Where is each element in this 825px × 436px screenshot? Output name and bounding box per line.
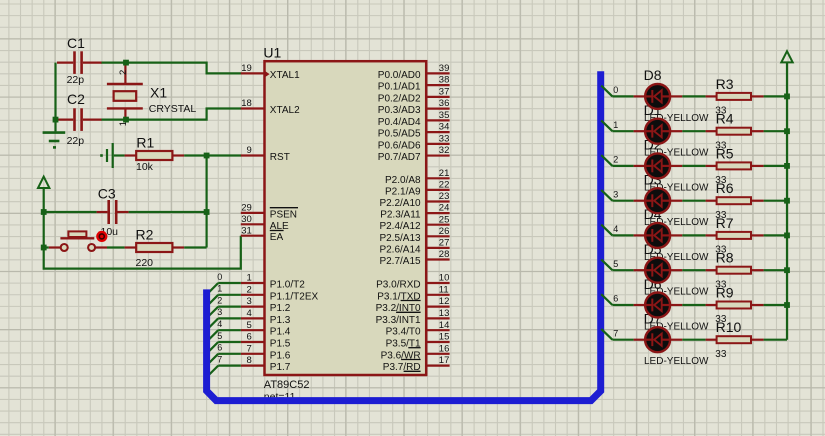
pin P0.5/AD5 (34) <box>378 122 450 140</box>
svg-text:C2: C2 <box>67 91 85 107</box>
label R1 <box>136 135 154 151</box>
svg-text:R9: R9 <box>716 284 734 300</box>
svg-text:17: 17 <box>439 355 450 366</box>
label R4 <box>716 111 734 127</box>
LED D6 <box>634 293 683 318</box>
svg-text:9: 9 <box>247 145 252 156</box>
label R8 <box>716 250 734 266</box>
label R2 <box>136 226 154 242</box>
svg-text:22p: 22p <box>67 74 85 86</box>
capacitor C1 <box>57 51 102 74</box>
label D1 <box>644 102 662 118</box>
value LED-YELLOW (D2) <box>644 182 709 193</box>
svg-text:13: 13 <box>439 308 450 319</box>
svg-text:PSEN: PSEN <box>270 209 297 220</box>
node bus entry label 6 <box>217 343 222 353</box>
svg-text:34: 34 <box>439 122 450 133</box>
svg-text:XTAL1: XTAL1 <box>270 70 300 81</box>
svg-text:6: 6 <box>217 343 222 353</box>
label R6 <box>716 180 734 196</box>
node bus entry label 5 <box>217 331 222 341</box>
value LED-YELLOW (D4) <box>644 252 709 263</box>
value 33 (R6) <box>715 210 727 221</box>
crystal X1 <box>107 65 143 119</box>
pin PSEN (29) <box>241 203 298 221</box>
label D6 <box>644 276 662 292</box>
node bus exit label 1 <box>613 120 618 130</box>
resistor R4 <box>706 128 764 135</box>
wire P1.0 to bus <box>207 283 240 294</box>
wire C1-C2 left vertical <box>54 63 56 120</box>
svg-text:2: 2 <box>217 295 222 305</box>
svg-text:P2.3/A11: P2.3/A11 <box>380 210 421 221</box>
svg-text:P0.3/AD3: P0.3/AD3 <box>378 105 421 116</box>
svg-text:4: 4 <box>613 224 618 234</box>
node junction X1 pin1 <box>123 117 129 123</box>
svg-text:P2.7/A15: P2.7/A15 <box>379 256 421 267</box>
svg-text:0: 0 <box>217 272 222 282</box>
svg-text:29: 29 <box>241 203 252 214</box>
svg-text:2: 2 <box>118 70 129 75</box>
svg-text:22: 22 <box>439 180 450 191</box>
resistor R8 <box>706 267 764 274</box>
node bus exit label 0 <box>613 85 618 95</box>
label D8 <box>644 67 662 83</box>
svg-text:11: 11 <box>439 284 449 295</box>
svg-text:18: 18 <box>241 98 252 109</box>
svg-text:5: 5 <box>217 331 222 341</box>
LED D3 <box>634 188 683 213</box>
wire R9 to rail <box>764 304 787 306</box>
node bus entry label 3 <box>217 307 222 317</box>
svg-text:26: 26 <box>439 226 450 237</box>
svg-text:1: 1 <box>247 273 252 284</box>
pin P2.4/A12 (25) <box>379 214 449 232</box>
svg-text:33: 33 <box>439 133 450 144</box>
wire LED to R5 <box>682 165 705 167</box>
pin P3.1/TXD (11) <box>377 284 449 302</box>
LED D2 <box>634 153 683 178</box>
svg-text:14: 14 <box>439 320 450 331</box>
pin EA (31) <box>241 225 284 243</box>
svg-text:P1.1/T2EX: P1.1/T2EX <box>270 291 319 302</box>
value 10u <box>101 226 119 238</box>
value LED-YELLOW (D7) <box>644 356 709 367</box>
pin P2.0/A8 (21) <box>385 168 450 186</box>
pin P1.7 (8) <box>241 355 291 373</box>
svg-text:P2.6/A14: P2.6/A14 <box>379 244 421 255</box>
svg-text:P0.2/AD2: P0.2/AD2 <box>378 93 421 104</box>
svg-text:25: 25 <box>439 214 450 225</box>
pin P3.2/INT0 (12) <box>376 296 450 314</box>
svg-text:2: 2 <box>613 155 618 165</box>
resistor R9 <box>706 302 764 309</box>
power terminal (right) <box>781 51 792 96</box>
push button <box>44 231 107 251</box>
wire LED to R10 <box>682 339 705 341</box>
svg-text:15: 15 <box>439 332 450 343</box>
svg-text:P1.6: P1.6 <box>270 350 291 361</box>
node bus exit label 2 <box>613 155 618 165</box>
label net=11 <box>264 391 296 403</box>
label C3 <box>98 186 116 202</box>
svg-text:6: 6 <box>247 332 252 343</box>
node junction rail row 0 <box>784 94 790 100</box>
pin P3.5/T1 (15) <box>386 332 450 350</box>
pin P3.7/RD (17) <box>383 355 450 373</box>
svg-text:R5: R5 <box>716 145 734 161</box>
wire bus to LED row 0 <box>601 86 633 97</box>
svg-text:37: 37 <box>439 86 450 97</box>
wire mid vertical (RST to R2) <box>206 156 208 248</box>
node bus entry label 0 <box>217 272 222 282</box>
battery cell symbol at R1 left <box>100 143 114 168</box>
label C2 <box>67 91 85 107</box>
svg-text:P1.4: P1.4 <box>270 327 291 338</box>
value 33 (R7) <box>715 245 727 256</box>
svg-text:4: 4 <box>247 308 252 319</box>
svg-text:36: 36 <box>439 98 450 109</box>
value LED-YELLOW (D3) <box>644 217 709 228</box>
svg-text:P1.2: P1.2 <box>270 303 291 314</box>
pin P1.5 (6) <box>241 332 291 350</box>
svg-text:R3: R3 <box>716 76 734 92</box>
svg-text:22p: 22p <box>67 135 85 147</box>
svg-text:32: 32 <box>439 145 450 156</box>
pin number 2 (X1) <box>118 70 129 75</box>
pin P1.4 (5) <box>241 320 291 338</box>
svg-text:P0.5/AD5: P0.5/AD5 <box>378 129 421 140</box>
node bus exit label 5 <box>613 259 618 269</box>
label R10 <box>716 319 742 335</box>
label D7 <box>644 311 662 327</box>
pin XTAL2 (18) <box>241 98 300 116</box>
wire LED to R4 <box>682 130 705 132</box>
svg-text:12: 12 <box>439 296 450 307</box>
wire EA tie rail <box>44 236 241 269</box>
node junction rail row 1 <box>784 128 790 134</box>
svg-text:2: 2 <box>247 284 252 295</box>
label AT89C52 <box>264 379 310 391</box>
pin P2.1/A9 (22) <box>385 180 450 198</box>
wire LED to R3 <box>682 95 705 97</box>
pin P1.3 (4) <box>241 308 291 326</box>
label U1 <box>263 45 281 61</box>
svg-text:EA: EA <box>270 232 284 243</box>
value 33 (R3) <box>715 106 727 117</box>
svg-text:19: 19 <box>241 63 252 74</box>
wire XTAL1 net (C1/crystal top to chip XTAL1) <box>101 63 241 74</box>
resistor R3 <box>706 93 764 100</box>
svg-text:10: 10 <box>439 273 450 284</box>
svg-text:3: 3 <box>247 296 252 307</box>
wire left rail down <box>43 212 45 248</box>
svg-text:7: 7 <box>217 354 222 364</box>
svg-text:P1.0/T2: P1.0/T2 <box>270 280 305 291</box>
value 33 (R8) <box>715 279 727 290</box>
wire R2 right to mid vertical <box>184 246 206 248</box>
pin P2.3/A11 (24) <box>380 203 449 221</box>
resistor R7 <box>706 232 764 239</box>
bus (blue) <box>207 71 601 400</box>
wire C3 right <box>129 211 207 213</box>
label R7 <box>716 215 734 231</box>
svg-text:10k: 10k <box>136 161 154 173</box>
node bus exit label 3 <box>613 189 618 199</box>
LED D5 <box>634 258 683 283</box>
node junction button left <box>41 245 47 251</box>
svg-text:27: 27 <box>439 238 450 249</box>
svg-text:0: 0 <box>613 85 618 95</box>
svg-text:AT89C52: AT89C52 <box>264 379 310 391</box>
wire P1.3 to bus <box>207 318 240 329</box>
wire R7 to rail <box>764 234 787 236</box>
LED D4 <box>634 223 683 248</box>
svg-text:P2.1/A9: P2.1/A9 <box>385 186 421 197</box>
svg-text:1: 1 <box>217 284 222 294</box>
node junction C3 right <box>204 209 210 215</box>
value 22p (C2) <box>67 135 85 147</box>
node bus exit label 4 <box>613 224 618 234</box>
wire P1.4 to bus <box>207 330 240 341</box>
svg-text:7: 7 <box>247 343 252 354</box>
LED D7 <box>634 327 683 352</box>
wire bus to LED row 4 <box>601 225 633 236</box>
node junction rail row 3 <box>784 198 790 204</box>
wire bus to LED row 3 <box>601 190 633 201</box>
wire R3 to rail <box>764 95 787 97</box>
resistor R2 <box>125 243 185 252</box>
svg-text:35: 35 <box>439 110 450 121</box>
wire cell to R1 <box>114 154 125 156</box>
wire LED to R6 <box>682 200 705 202</box>
node bus entry label 4 <box>217 319 222 329</box>
svg-text:U1: U1 <box>263 45 281 61</box>
svg-text:31: 31 <box>241 225 252 236</box>
value CRYSTAL <box>149 103 197 115</box>
pin P0.7/AD7 (32) <box>378 145 450 163</box>
pin P1.1/T2EX (2) <box>241 284 319 302</box>
value LED-YELLOW (D1) <box>644 148 709 159</box>
label R5 <box>716 145 734 161</box>
value 33 (R5) <box>715 175 727 186</box>
svg-text:220: 220 <box>136 257 154 269</box>
svg-text:CRYSTAL: CRYSTAL <box>149 103 197 115</box>
value 220 <box>136 257 154 269</box>
svg-text:P2.2/A10: P2.2/A10 <box>379 198 421 209</box>
wire LED to R7 <box>682 234 705 236</box>
svg-text:X1: X1 <box>150 85 167 101</box>
ground symbol <box>43 120 66 148</box>
wire bus to LED row 2 <box>601 155 633 166</box>
node bus entry label 1 <box>217 284 222 294</box>
pin P3.3/INT1 (13) <box>376 308 450 326</box>
wire R8 to rail <box>764 269 787 271</box>
label R9 <box>716 284 734 300</box>
value LED-YELLOW (D8) <box>644 113 709 124</box>
wire right rail <box>786 96 788 339</box>
node junction rail row 4 <box>784 233 790 239</box>
node junction rail row 6 <box>784 302 790 308</box>
svg-text:R1: R1 <box>136 135 154 151</box>
node bus exit label 7 <box>613 328 618 338</box>
svg-text:6: 6 <box>613 294 618 304</box>
svg-text:P0.6/AD6: P0.6/AD6 <box>378 140 421 151</box>
wire R10 to rail <box>764 339 787 341</box>
resistor R6 <box>706 197 764 204</box>
LED D8 <box>634 84 683 109</box>
pin P1.0/T2 (1) <box>241 273 305 291</box>
wire bus to LED row 1 <box>601 120 633 131</box>
label D5 <box>644 241 662 257</box>
svg-text:P0.7/AD7: P0.7/AD7 <box>378 152 421 163</box>
pin P3.6/WR (16) <box>381 343 450 361</box>
svg-text:5: 5 <box>247 320 252 331</box>
label X1 <box>150 85 167 101</box>
pin number 1 (X1) <box>118 121 129 126</box>
svg-text:1: 1 <box>613 120 618 130</box>
value 33 (R10) <box>715 349 727 360</box>
pin P0.0/AD0 (39) <box>378 63 450 81</box>
pin P0.2/AD2 (37) <box>378 86 450 104</box>
wire R1 to RST pin <box>184 154 241 156</box>
value 33 (R4) <box>715 140 727 151</box>
label D2 <box>644 137 662 153</box>
pin P0.3/AD3 (36) <box>378 98 450 116</box>
XTAL1 input marker <box>265 71 270 77</box>
pin XTAL1 (19) <box>241 63 300 81</box>
value 33 (R9) <box>715 314 727 325</box>
wire R6 to rail <box>764 200 787 202</box>
wire P1.1 to bus <box>207 295 240 306</box>
svg-text:21: 21 <box>439 168 450 179</box>
svg-text:P1.7: P1.7 <box>270 362 291 373</box>
svg-text:R2: R2 <box>136 226 154 242</box>
pin P3.4/T0 (14) <box>386 320 450 338</box>
wire bus to LED row 5 <box>601 259 633 270</box>
resistor R10 <box>706 336 764 343</box>
svg-text:P0.1/AD1: P0.1/AD1 <box>378 82 421 93</box>
capacitor C2 <box>57 108 102 131</box>
pin ALE (30) <box>241 214 289 232</box>
svg-text:P1.3: P1.3 <box>270 315 291 326</box>
wire C3 left <box>44 211 97 213</box>
value LED-YELLOW (D5) <box>644 287 709 298</box>
svg-text:D8: D8 <box>644 67 662 83</box>
label D3 <box>644 172 662 188</box>
node junction rail row 5 <box>784 267 790 273</box>
capacitor C3 <box>97 200 129 224</box>
svg-text:4: 4 <box>217 319 222 329</box>
op-amp U1 body (AT89C52) <box>265 61 427 375</box>
pin P1.2 (3) <box>241 296 291 314</box>
svg-text:LED-YELLOW: LED-YELLOW <box>644 356 709 367</box>
svg-text:R10: R10 <box>716 319 742 335</box>
svg-text:16: 16 <box>439 343 450 354</box>
svg-text:30: 30 <box>241 214 252 225</box>
svg-text:33: 33 <box>715 349 727 360</box>
svg-text:5: 5 <box>613 259 618 269</box>
LED D1 <box>634 119 683 144</box>
node junction C2-ground <box>53 117 59 123</box>
svg-text:P1.5: P1.5 <box>270 339 291 350</box>
wire XTAL2 net (C2/crystal bottom to chip XTAL2) <box>101 109 241 120</box>
wire bus to LED row 7 <box>601 329 633 340</box>
red state ball <box>96 231 107 242</box>
svg-text:3: 3 <box>613 189 618 199</box>
svg-text:P2.4/A12: P2.4/A12 <box>379 221 421 232</box>
pin P2.5/A13 (26) <box>379 226 449 244</box>
wire LED to R8 <box>682 269 705 271</box>
node junction rail row 2 <box>784 163 790 169</box>
svg-text:R4: R4 <box>716 111 734 127</box>
svg-text:C3: C3 <box>98 186 116 202</box>
wire R4 to rail <box>764 130 787 132</box>
label D4 <box>644 206 662 222</box>
svg-text:3: 3 <box>217 307 222 317</box>
svg-text:28: 28 <box>439 249 450 260</box>
svg-text:R7: R7 <box>716 215 734 231</box>
pin P3.0/RXD (10) <box>376 273 449 291</box>
wire P1.6 to bus <box>207 354 240 365</box>
pin P0.6/AD6 (33) <box>378 133 450 151</box>
wire P1.7 to bus <box>207 366 240 377</box>
svg-text:XTAL2: XTAL2 <box>270 105 300 116</box>
wire LED to R9 <box>682 304 705 306</box>
node junction C3 left <box>41 209 47 215</box>
node bus entry label 2 <box>217 295 222 305</box>
wire button to R2 <box>107 246 125 248</box>
pin P2.2/A10 (23) <box>379 191 449 209</box>
pin RST (9) <box>241 145 290 163</box>
svg-text:R6: R6 <box>716 180 734 196</box>
wire bus to LED row 6 <box>601 294 633 305</box>
pin P0.1/AD1 (38) <box>378 75 450 93</box>
svg-text:P0.0/AD0: P0.0/AD0 <box>378 70 421 81</box>
node junction RST/reset-net <box>204 153 210 159</box>
pin P1.6 (7) <box>241 343 291 361</box>
node bus exit label 6 <box>613 294 618 304</box>
svg-text:C1: C1 <box>67 35 85 51</box>
svg-text:P3.0/RXD: P3.0/RXD <box>376 280 420 291</box>
pin P0.4/AD4 (35) <box>378 110 450 128</box>
svg-text:P2.5/A13: P2.5/A13 <box>379 233 421 244</box>
node bus entry label 7 <box>217 354 222 364</box>
svg-text:P3.4/T0: P3.4/T0 <box>386 327 421 338</box>
pin P2.7/A15 (28) <box>379 249 449 267</box>
pin P2.6/A14 (27) <box>379 238 449 256</box>
svg-text:38: 38 <box>439 75 450 86</box>
wire P1.2 to bus <box>207 307 240 318</box>
svg-text:24: 24 <box>439 203 450 214</box>
svg-text:R8: R8 <box>716 250 734 266</box>
label C1 <box>67 35 85 51</box>
value LED-YELLOW (D6) <box>644 321 709 332</box>
svg-text:P2.0/A8: P2.0/A8 <box>385 175 421 186</box>
svg-text:RST: RST <box>270 152 290 163</box>
wire R5 to rail <box>764 165 787 167</box>
wire P1.5 to bus <box>207 342 240 353</box>
svg-text:8: 8 <box>247 355 252 366</box>
svg-text:P3.3/INT1: P3.3/INT1 <box>376 315 421 326</box>
power terminal (left) <box>38 177 49 212</box>
svg-text:23: 23 <box>439 191 450 202</box>
svg-text:39: 39 <box>439 63 450 74</box>
value 10k <box>136 161 154 173</box>
value 22p (C1) <box>67 74 85 86</box>
resistor R1 <box>125 151 185 160</box>
resistor R5 <box>706 162 764 169</box>
